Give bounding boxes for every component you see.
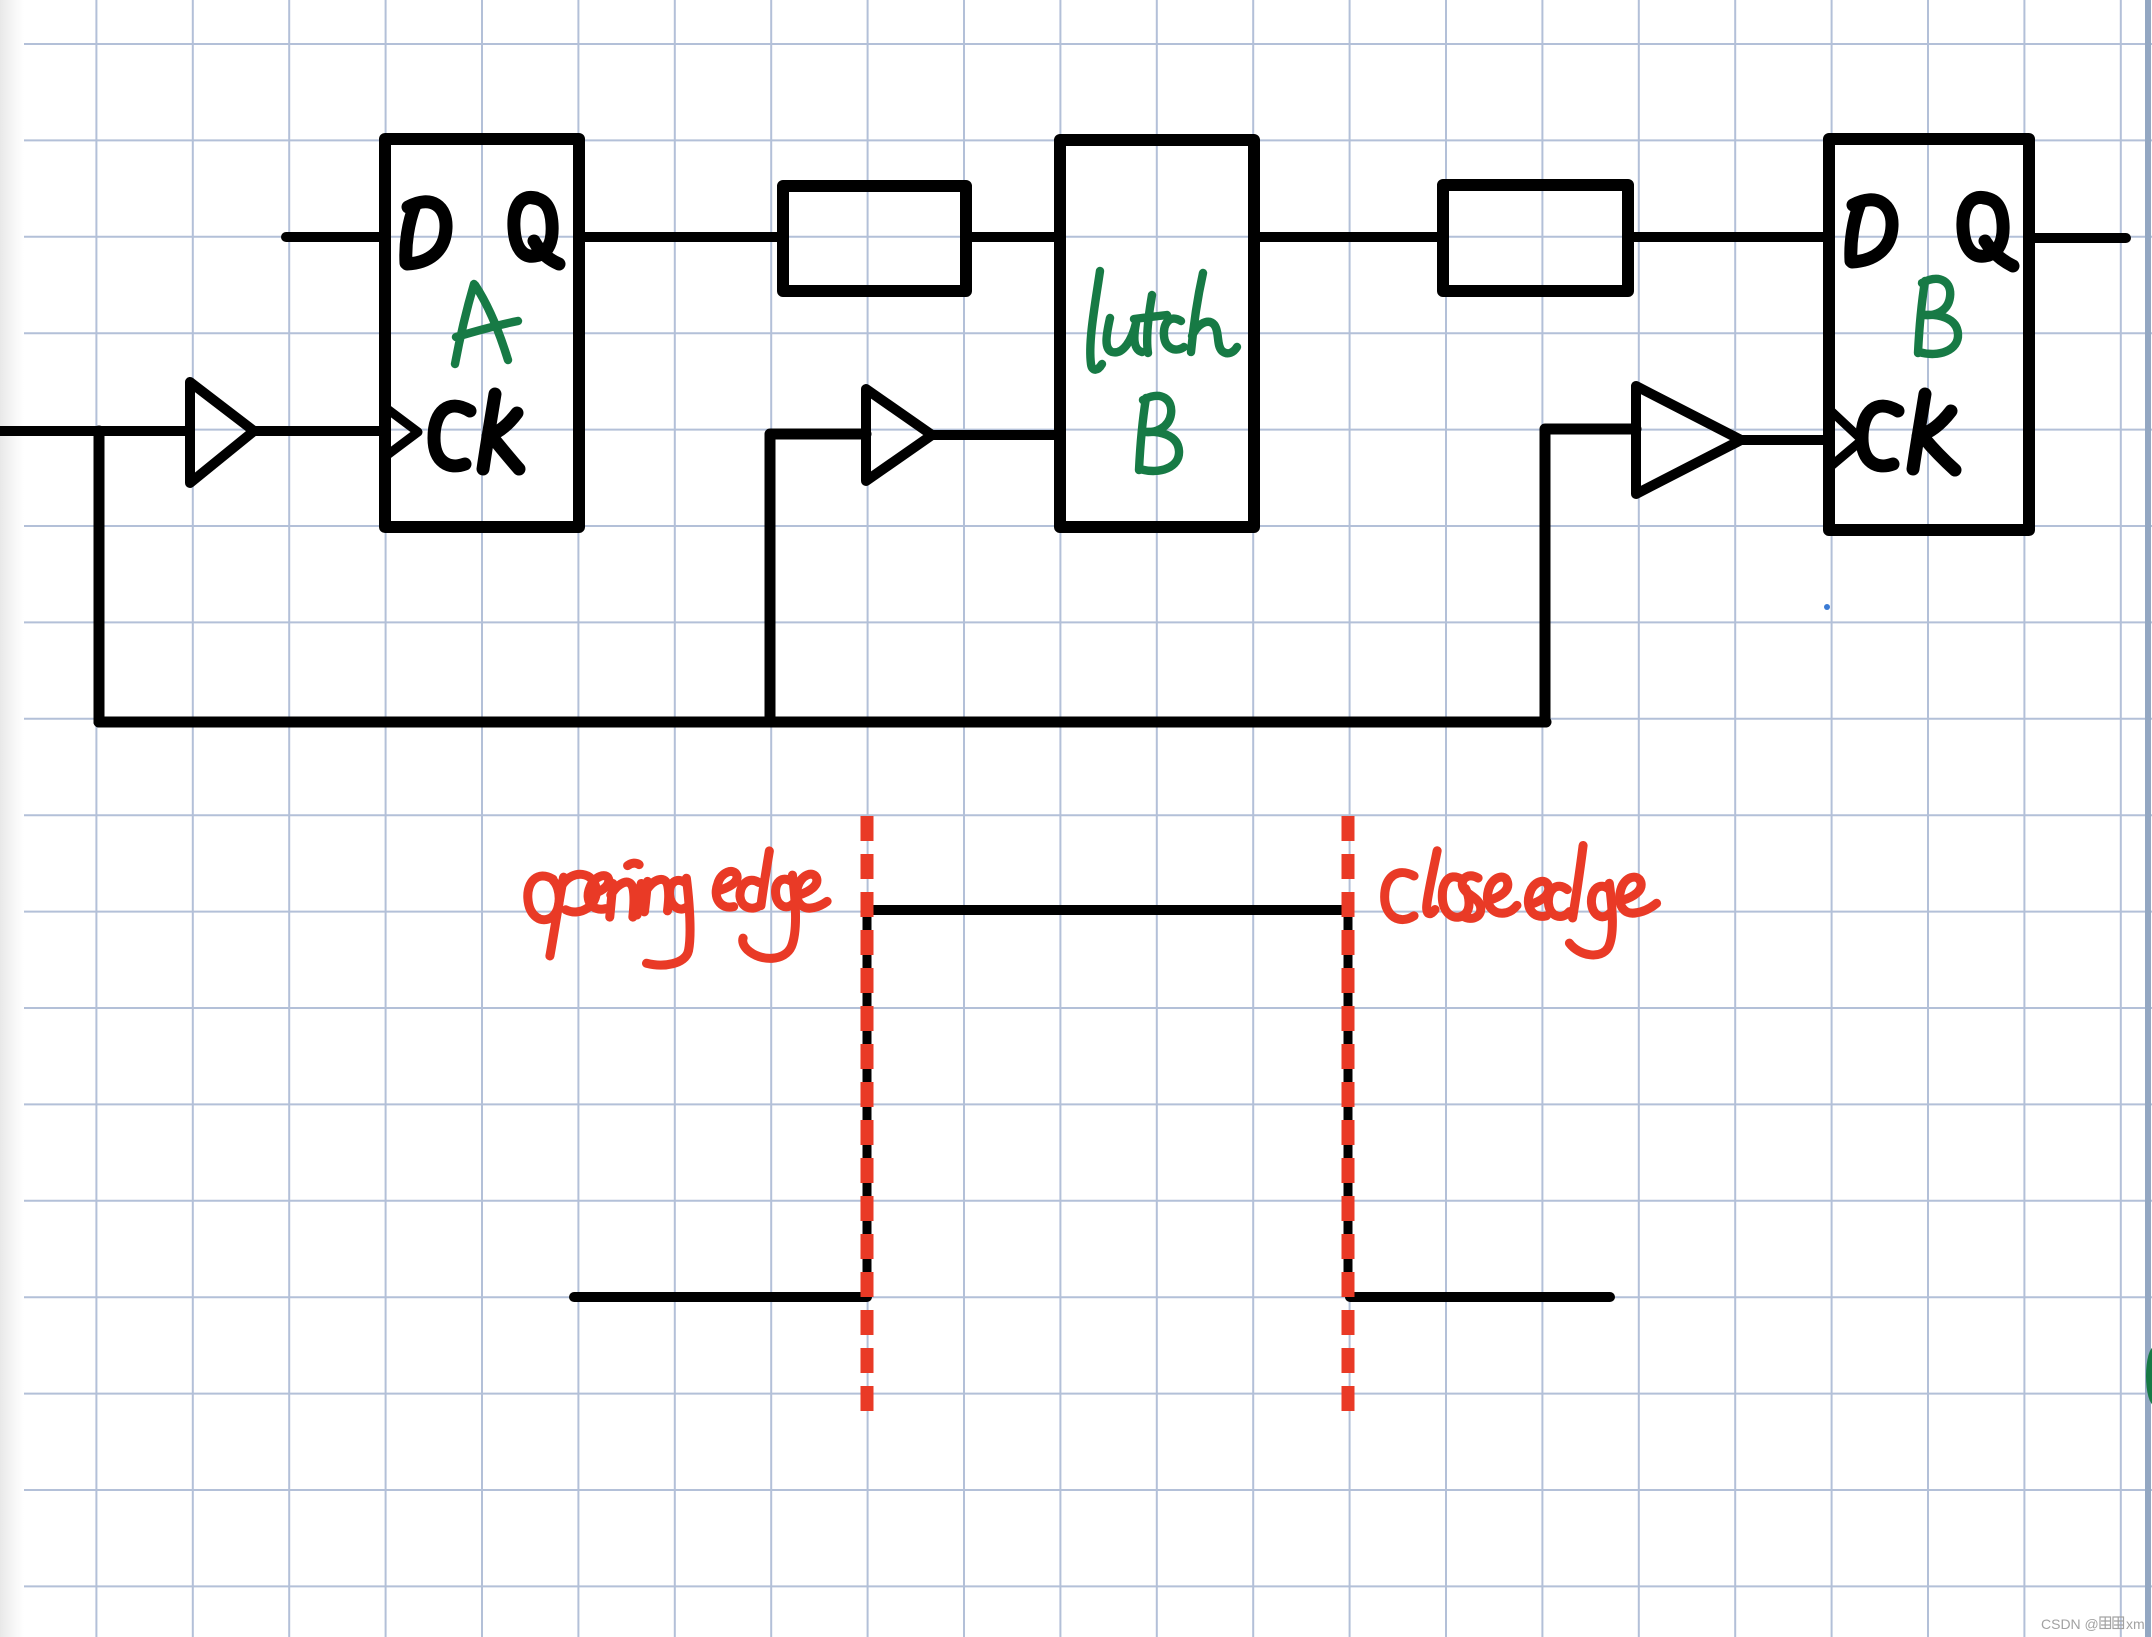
- flip-flop A: [385, 139, 579, 527]
- latch B box: [1060, 140, 1254, 527]
- waveform high level: [867, 905, 1348, 915]
- waveform low level left: [574, 1292, 867, 1302]
- wire clock branch down: [94, 431, 105, 722]
- combinational logic box 1: [783, 186, 966, 291]
- red dashed marker opening edge: [861, 816, 874, 1411]
- waveform low level right: [1350, 1292, 1610, 1302]
- label A (green) in flip-flop A: [455, 284, 518, 364]
- pin label CK of B: [1862, 394, 1955, 470]
- pin label Q of A: [514, 197, 559, 264]
- clock buffer U2: [866, 389, 932, 481]
- pin label D of A: [406, 202, 446, 264]
- wire data input to D of A: [286, 232, 385, 242]
- wire U1 to CK of A: [254, 426, 385, 436]
- wire U3 to CK of B: [1741, 435, 1829, 445]
- wire clock bottom rail: [99, 717, 1546, 728]
- clock buffer U1: [190, 382, 254, 483]
- label B (green) in latch B: [1139, 396, 1179, 471]
- CK wedge of B: [1830, 410, 1862, 467]
- pin label Q of B: [1963, 197, 2013, 266]
- label B (green) in flip-flop B: [1918, 279, 1958, 354]
- wire riser to U3: [1545, 429, 1636, 722]
- clock buffer U3: [1636, 386, 1741, 494]
- label lutch (green) in latch B: [1090, 271, 1102, 370]
- wire Q of A to logic box 1: [579, 232, 783, 242]
- wire latch B to logic box 2: [1254, 232, 1443, 242]
- waveform falling edge (black under red dashes): [1344, 910, 1353, 1297]
- CK wedge of A: [386, 408, 418, 456]
- combinational logic box 2: [1443, 185, 1628, 291]
- annotation text: opening edge: [528, 876, 559, 920]
- wire logic box 2 to D of B: [1628, 232, 1829, 242]
- waveform rising edge (black under red dashes): [863, 910, 872, 1297]
- wire clock input: [0, 426, 190, 436]
- pin label CK of A: [434, 394, 519, 469]
- red dashed marker close edge: [1342, 816, 1355, 1411]
- svg-text:xm: xm: [2126, 1616, 2145, 1632]
- green circle clipped at right edge: [2146, 1347, 2152, 1405]
- annotation text: close edge: [1385, 873, 1414, 920]
- wire U2 to latch B enable: [932, 430, 1060, 440]
- wire Q of B output: [2029, 233, 2126, 243]
- tiny blue dot: [1824, 604, 1830, 610]
- pin label D of B: [1851, 200, 1892, 262]
- svg-text:CSDN @: CSDN @: [2041, 1616, 2099, 1632]
- wire logic box 1 to latch B: [966, 232, 1060, 242]
- flip-flop B: [1829, 139, 2029, 530]
- wire riser to U2: [770, 434, 866, 722]
